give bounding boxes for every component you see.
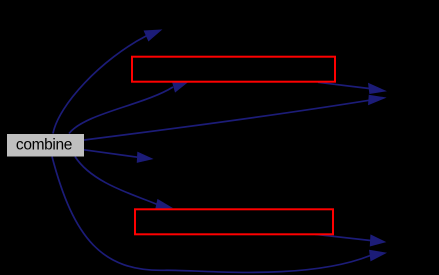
wire: edge combine -> top node (curved) [53, 36, 147, 134]
wire: edge combine -> node2 box top-left [75, 157, 157, 205]
arrowhead: combine -> top node [144, 30, 161, 41]
wire: edge node2 -> bottom-right node [315, 234, 371, 240]
wire: edge combine -> right node (long straight) [84, 100, 369, 140]
wire: edge node1 -> right node [318, 82, 369, 88]
node combine: current node (grey box) [7, 134, 84, 157]
wire: edge combine -> middle node (short) [84, 150, 138, 157]
node1: truncated node (red box, top) [132, 57, 335, 82]
arrowhead: combine -> node2 [156, 200, 172, 210]
arrowhead: combine -> middle node [137, 152, 152, 162]
svg-text:combine: combine [16, 136, 72, 153]
wire: edge combine -> bottom-right node (big bottom curve) [52, 157, 370, 273]
wire: edge combine -> node1 box bottom-left [69, 87, 173, 134]
arrowhead: node1 -> right node [369, 84, 386, 94]
arrowhead: combine -> right node [369, 95, 385, 104]
node2: truncated node (red box, bottom) [135, 209, 333, 234]
arrowhead: combine -> bottom-right node [370, 250, 386, 260]
arrowhead: combine -> node1 [173, 82, 188, 92]
arrowhead: node2 -> bottom-right node [370, 235, 385, 246]
